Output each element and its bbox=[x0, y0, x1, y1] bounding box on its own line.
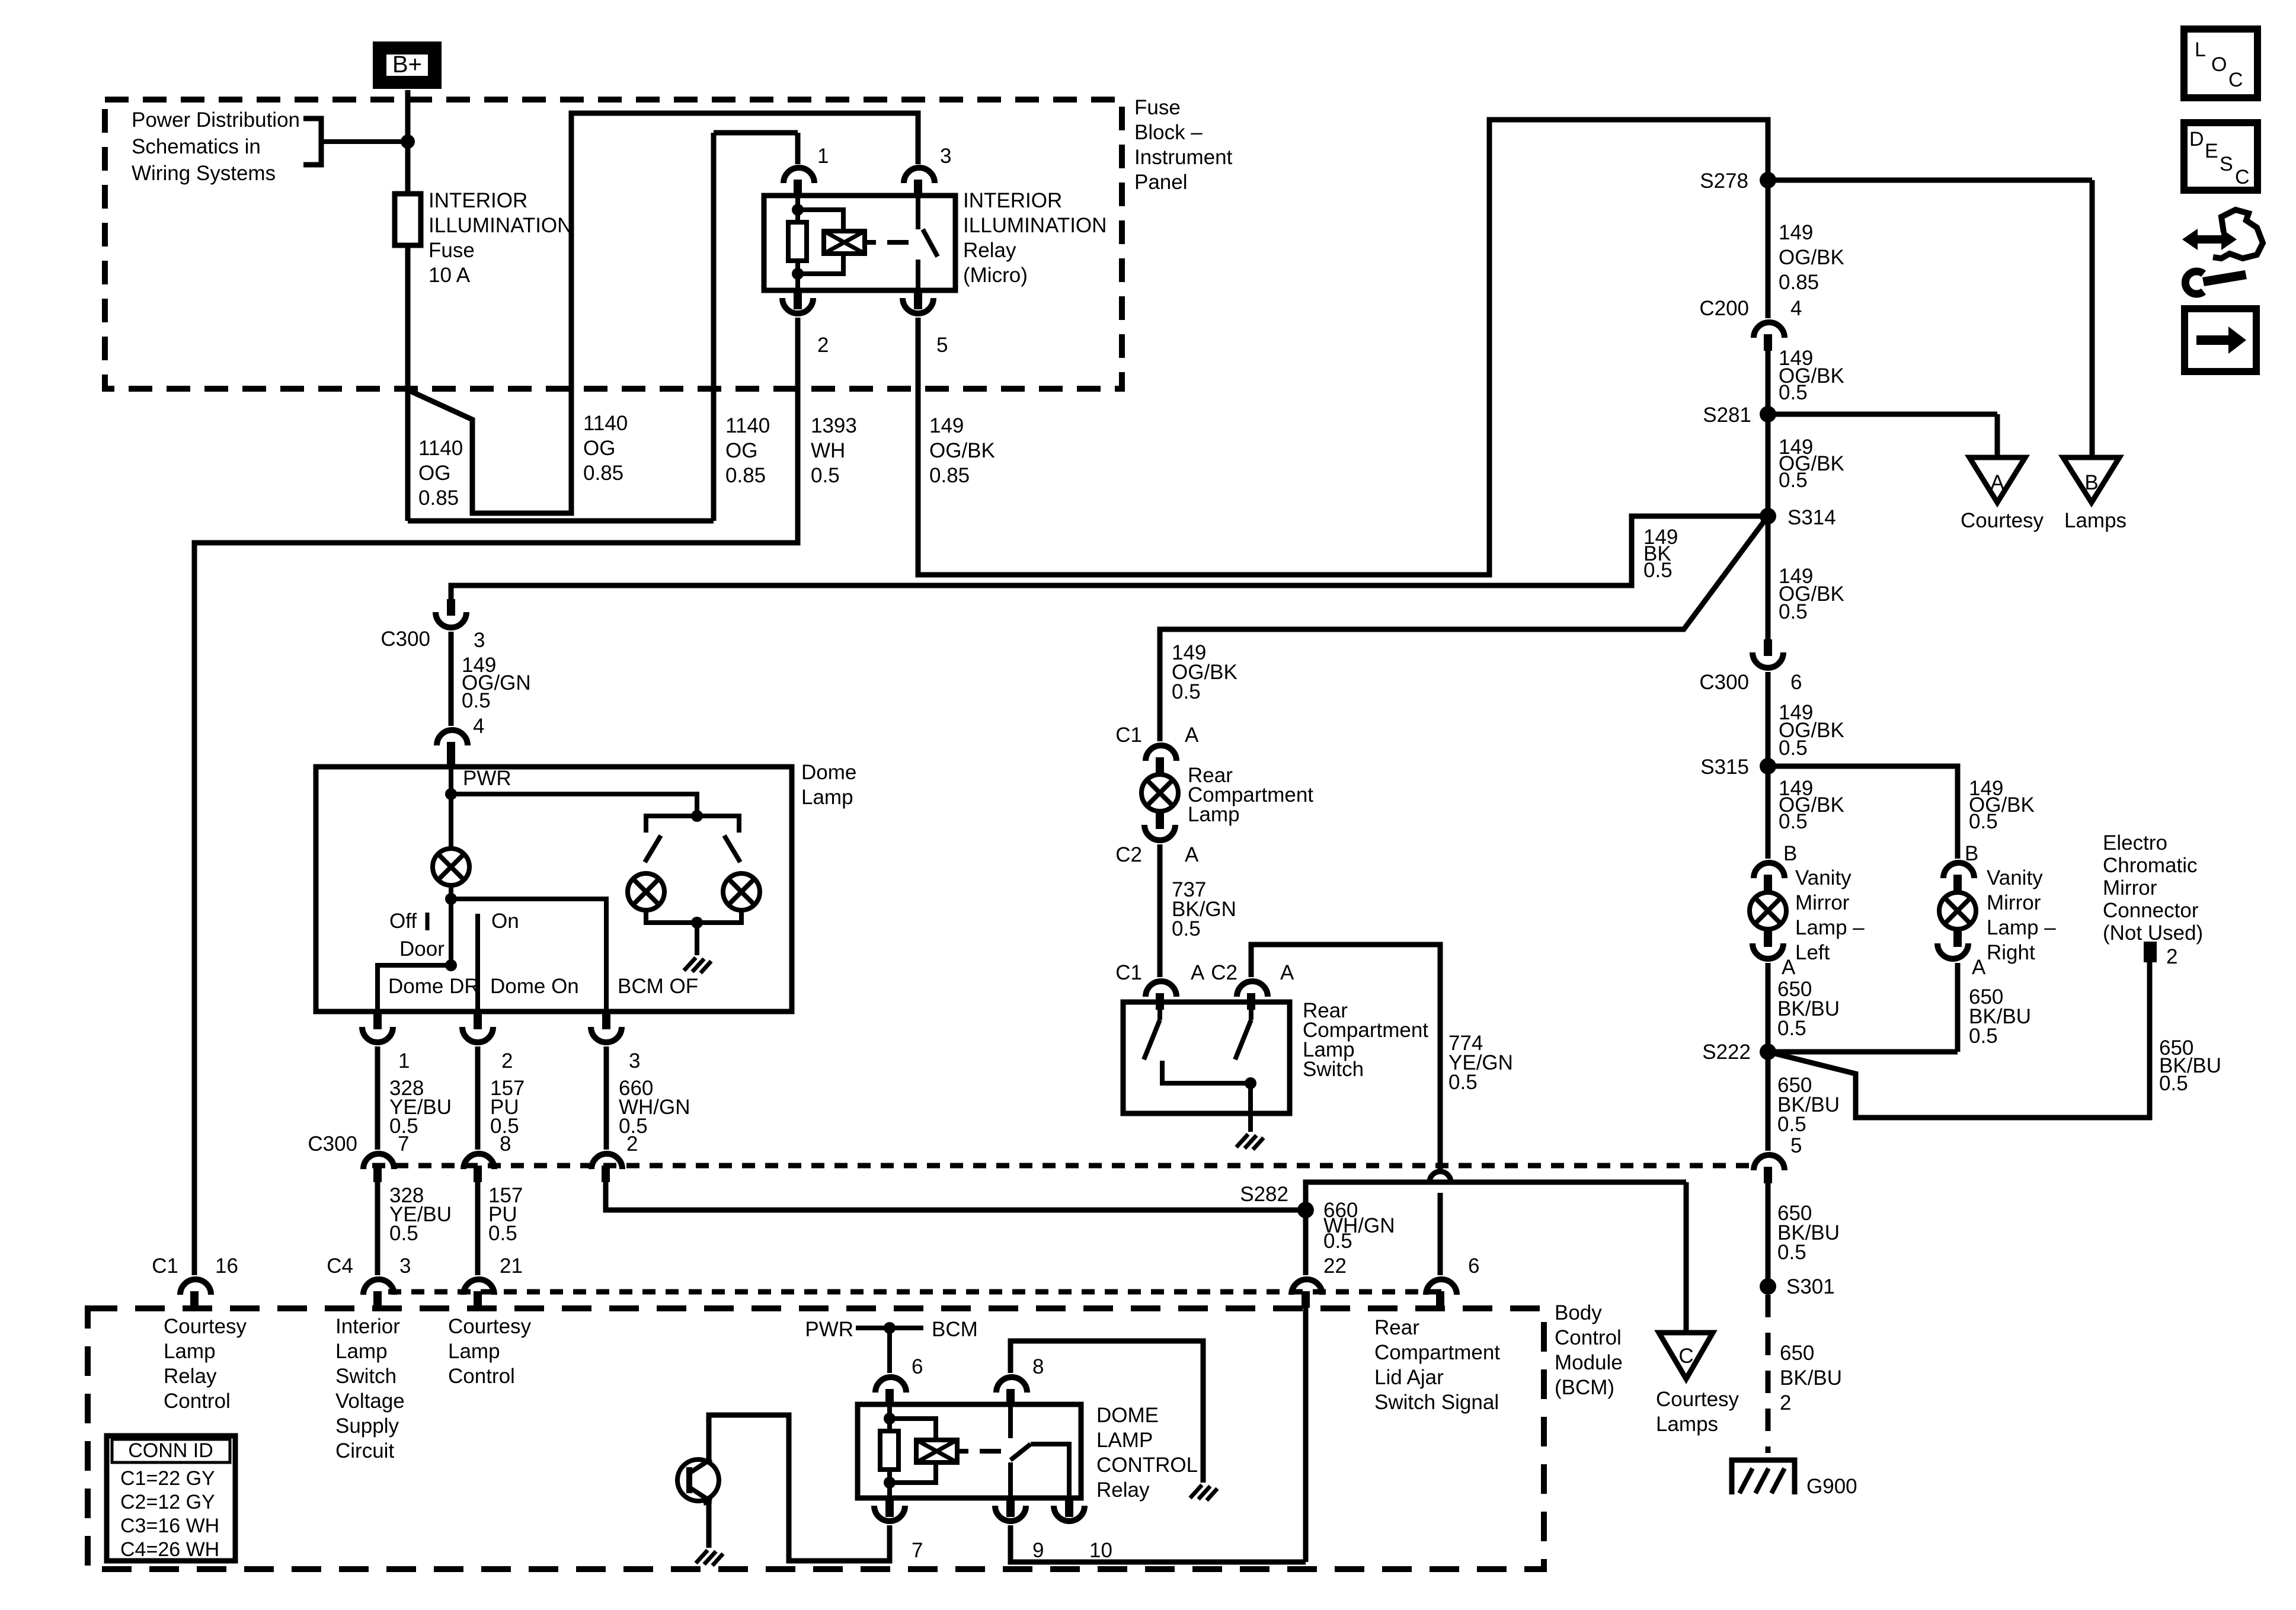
svg-text:7: 7 bbox=[912, 1539, 923, 1562]
svg-text:OG/BK: OG/BK bbox=[929, 439, 995, 462]
svg-text:0.5: 0.5 bbox=[488, 1222, 517, 1245]
svg-text:21: 21 bbox=[500, 1254, 523, 1278]
svg-text:0.5: 0.5 bbox=[1777, 1241, 1806, 1264]
svg-text:CONN ID: CONN ID bbox=[128, 1439, 213, 1462]
svg-text:Control: Control bbox=[448, 1365, 515, 1388]
svg-text:10 A: 10 A bbox=[428, 264, 471, 287]
svg-text:B: B bbox=[2084, 471, 2098, 494]
svg-text:Rear: Rear bbox=[1374, 1316, 1419, 1339]
svg-text:Voltage: Voltage bbox=[335, 1390, 405, 1413]
svg-text:0.5: 0.5 bbox=[1323, 1230, 1352, 1253]
svg-text:Panel: Panel bbox=[1134, 171, 1188, 194]
svg-text:Lamp: Lamp bbox=[1188, 803, 1240, 826]
svg-text:C4: C4 bbox=[327, 1254, 353, 1278]
svg-text:6: 6 bbox=[1790, 671, 1802, 694]
svg-text:0.5: 0.5 bbox=[1779, 737, 1808, 760]
svg-text:1140: 1140 bbox=[583, 412, 628, 435]
svg-text:ILLUMINATION: ILLUMINATION bbox=[428, 214, 572, 237]
svg-text:1: 1 bbox=[817, 145, 829, 168]
svg-text:2: 2 bbox=[817, 334, 829, 357]
svg-text:B: B bbox=[1783, 842, 1797, 865]
svg-text:Lamp: Lamp bbox=[164, 1340, 216, 1363]
svg-text:4: 4 bbox=[473, 715, 484, 738]
svg-text:1393: 1393 bbox=[811, 414, 857, 437]
svg-text:BCM: BCM bbox=[932, 1318, 978, 1341]
svg-text:OG: OG bbox=[418, 462, 450, 485]
svg-text:0.5: 0.5 bbox=[1172, 680, 1201, 703]
svg-text:D: D bbox=[2189, 128, 2204, 151]
svg-text:10: 10 bbox=[1089, 1539, 1112, 1562]
svg-text:Dome: Dome bbox=[801, 761, 856, 784]
svg-text:C1: C1 bbox=[152, 1254, 178, 1278]
svg-text:Switch Signal: Switch Signal bbox=[1374, 1391, 1499, 1414]
svg-text:Vanity: Vanity bbox=[1795, 866, 1851, 889]
svg-text:1140: 1140 bbox=[725, 414, 770, 437]
svg-text:8: 8 bbox=[500, 1132, 511, 1156]
svg-text:L: L bbox=[2195, 39, 2206, 61]
svg-text:S281: S281 bbox=[1703, 404, 1751, 427]
svg-text:Chromatic: Chromatic bbox=[2103, 854, 2197, 877]
svg-text:A: A bbox=[1782, 956, 1796, 979]
svg-text:C300: C300 bbox=[380, 628, 430, 651]
svg-text:C3=16 WH: C3=16 WH bbox=[120, 1515, 219, 1537]
svg-text:Left: Left bbox=[1795, 941, 1830, 964]
svg-text:0.5: 0.5 bbox=[1779, 810, 1808, 833]
svg-text:PWR: PWR bbox=[463, 767, 511, 790]
svg-text:4: 4 bbox=[1790, 297, 1802, 320]
svg-text:Dome On: Dome On bbox=[490, 975, 579, 998]
svg-text:OG: OG bbox=[583, 437, 615, 460]
svg-text:22: 22 bbox=[1323, 1254, 1347, 1278]
svg-text:Switch: Switch bbox=[1303, 1058, 1364, 1081]
svg-text:Lamps: Lamps bbox=[2064, 509, 2126, 532]
svg-text:0.5: 0.5 bbox=[1779, 469, 1808, 492]
svg-text:INTERIOR: INTERIOR bbox=[428, 189, 527, 212]
svg-text:1: 1 bbox=[398, 1049, 410, 1073]
svg-text:S: S bbox=[2220, 153, 2233, 175]
svg-text:(Micro): (Micro) bbox=[963, 264, 1028, 287]
svg-text:O: O bbox=[2211, 53, 2227, 76]
svg-text:0.5: 0.5 bbox=[1779, 381, 1808, 404]
svg-text:149: 149 bbox=[929, 414, 964, 437]
svg-text:Circuit: Circuit bbox=[335, 1439, 394, 1462]
svg-text:Electro: Electro bbox=[2103, 831, 2167, 854]
svg-text:Lamp –: Lamp – bbox=[1987, 916, 2056, 939]
svg-text:E: E bbox=[2205, 140, 2218, 162]
svg-text:0.5: 0.5 bbox=[1777, 1017, 1806, 1040]
svg-text:Dome DR: Dome DR bbox=[388, 975, 479, 998]
svg-text:1140: 1140 bbox=[418, 437, 463, 460]
svg-text:0.5: 0.5 bbox=[389, 1222, 418, 1245]
svg-text:0.5: 0.5 bbox=[1777, 1113, 1806, 1136]
svg-text:Mirror: Mirror bbox=[1795, 891, 1850, 914]
svg-text:650: 650 bbox=[1780, 1342, 1814, 1365]
svg-text:BCM OF: BCM OF bbox=[618, 975, 698, 998]
svg-text:Courtesy: Courtesy bbox=[1961, 509, 2044, 532]
svg-text:(BCM): (BCM) bbox=[1555, 1376, 1614, 1399]
svg-text:S282: S282 bbox=[1240, 1183, 1288, 1206]
svg-text:Power Distribution: Power Distribution bbox=[132, 108, 300, 132]
svg-text:0.85: 0.85 bbox=[725, 464, 766, 487]
svg-text:Supply: Supply bbox=[335, 1414, 399, 1438]
svg-text:INTERIOR: INTERIOR bbox=[963, 189, 1062, 212]
svg-text:DOME: DOME bbox=[1096, 1404, 1159, 1427]
svg-text:Lamp: Lamp bbox=[801, 786, 853, 809]
svg-text:Connector: Connector bbox=[2103, 899, 2199, 922]
svg-text:Relay: Relay bbox=[963, 239, 1016, 262]
svg-text:0.5: 0.5 bbox=[1779, 600, 1808, 623]
svg-text:Lamp: Lamp bbox=[448, 1340, 500, 1363]
svg-text:Lid Ajar: Lid Ajar bbox=[1374, 1366, 1444, 1389]
svg-text:0.5: 0.5 bbox=[1643, 559, 1673, 582]
svg-text:C2: C2 bbox=[1115, 843, 1142, 866]
svg-text:Lamp: Lamp bbox=[335, 1340, 388, 1363]
svg-text:ILLUMINATION: ILLUMINATION bbox=[963, 214, 1107, 237]
svg-text:On: On bbox=[491, 910, 519, 933]
svg-text:Lamps: Lamps bbox=[1656, 1413, 1718, 1436]
svg-text:Mirror: Mirror bbox=[1987, 891, 2041, 914]
svg-text:8: 8 bbox=[1032, 1355, 1044, 1378]
svg-text:9: 9 bbox=[1032, 1539, 1044, 1562]
svg-text:C300: C300 bbox=[308, 1132, 357, 1156]
svg-text:S278: S278 bbox=[1700, 169, 1748, 193]
svg-text:0.5: 0.5 bbox=[462, 689, 491, 712]
svg-text:6: 6 bbox=[1468, 1254, 1479, 1278]
svg-text:Courtesy: Courtesy bbox=[164, 1315, 247, 1338]
svg-text:Fuse: Fuse bbox=[428, 239, 475, 262]
svg-text:A: A bbox=[1191, 961, 1205, 984]
svg-text:C1: C1 bbox=[1115, 724, 1142, 747]
svg-text:Body: Body bbox=[1555, 1301, 1602, 1324]
svg-text:A: A bbox=[1990, 471, 2004, 494]
svg-text:A: A bbox=[1185, 724, 1199, 747]
svg-text:3: 3 bbox=[399, 1254, 411, 1278]
svg-text:S315: S315 bbox=[1700, 756, 1749, 779]
svg-text:A: A bbox=[1280, 961, 1294, 984]
svg-text:C4=26 WH: C4=26 WH bbox=[120, 1538, 219, 1561]
svg-text:5: 5 bbox=[936, 334, 948, 357]
svg-text:PWR: PWR bbox=[805, 1318, 853, 1341]
svg-text:C2=12 GY: C2=12 GY bbox=[120, 1491, 215, 1513]
svg-text:Instrument: Instrument bbox=[1134, 146, 1233, 169]
svg-text:3: 3 bbox=[474, 629, 485, 652]
svg-text:A: A bbox=[1185, 843, 1199, 866]
svg-text:5: 5 bbox=[1790, 1134, 1802, 1157]
svg-text:3: 3 bbox=[629, 1049, 640, 1073]
svg-text:S314: S314 bbox=[1787, 506, 1836, 529]
svg-text:Module: Module bbox=[1555, 1351, 1623, 1374]
svg-text:Door: Door bbox=[399, 937, 445, 961]
svg-text:CONTROL: CONTROL bbox=[1096, 1454, 1198, 1477]
svg-text:Right: Right bbox=[1987, 941, 2035, 964]
svg-text:2: 2 bbox=[1780, 1391, 1791, 1414]
svg-text:Schematics in: Schematics in bbox=[132, 135, 261, 158]
svg-text:B: B bbox=[1965, 842, 1978, 865]
svg-text:LAMP: LAMP bbox=[1096, 1429, 1153, 1452]
svg-text:149: 149 bbox=[1779, 221, 1813, 244]
svg-text:0.85: 0.85 bbox=[929, 464, 970, 487]
svg-text:Mirror: Mirror bbox=[2103, 876, 2157, 900]
svg-text:OG/BK: OG/BK bbox=[1779, 246, 1844, 269]
svg-text:0.85: 0.85 bbox=[1779, 271, 1819, 294]
svg-text:OG: OG bbox=[725, 439, 757, 462]
svg-text:Fuse: Fuse bbox=[1134, 96, 1181, 119]
svg-text:0.5: 0.5 bbox=[1969, 810, 1998, 833]
svg-text:Interior: Interior bbox=[335, 1315, 400, 1338]
svg-text:16: 16 bbox=[215, 1254, 238, 1278]
svg-text:Block –: Block – bbox=[1134, 121, 1203, 144]
svg-text:(Not Used): (Not Used) bbox=[2103, 921, 2203, 945]
svg-text:0.5: 0.5 bbox=[1448, 1071, 1478, 1094]
svg-text:Off: Off bbox=[389, 910, 417, 933]
svg-text:Compartment: Compartment bbox=[1374, 1341, 1500, 1364]
svg-text:Control: Control bbox=[164, 1390, 231, 1413]
svg-text:C300: C300 bbox=[1699, 671, 1749, 694]
svg-text:0.5: 0.5 bbox=[1969, 1025, 1998, 1048]
svg-text:Wiring Systems: Wiring Systems bbox=[132, 162, 276, 185]
svg-text:2: 2 bbox=[626, 1132, 638, 1156]
svg-text:0.5: 0.5 bbox=[811, 464, 840, 487]
svg-text:Relay: Relay bbox=[1096, 1478, 1150, 1502]
svg-text:C: C bbox=[2228, 69, 2243, 91]
svg-text:Relay: Relay bbox=[164, 1365, 217, 1388]
svg-text:6: 6 bbox=[912, 1355, 923, 1378]
svg-text:Courtesy: Courtesy bbox=[1656, 1388, 1739, 1411]
svg-text:Vanity: Vanity bbox=[1987, 866, 2043, 889]
svg-text:C2: C2 bbox=[1211, 961, 1237, 984]
svg-text:3: 3 bbox=[940, 145, 951, 168]
svg-text:B+: B+ bbox=[392, 52, 422, 78]
svg-text:G900: G900 bbox=[1806, 1475, 1857, 1498]
svg-text:Courtesy: Courtesy bbox=[448, 1315, 532, 1338]
svg-text:A: A bbox=[1972, 956, 1986, 979]
svg-text:C: C bbox=[1678, 1345, 1693, 1368]
svg-text:2: 2 bbox=[501, 1049, 513, 1073]
svg-text:7: 7 bbox=[398, 1132, 409, 1156]
svg-text:0.85: 0.85 bbox=[583, 462, 623, 485]
svg-text:0.5: 0.5 bbox=[1172, 917, 1201, 940]
svg-text:Lamp –: Lamp – bbox=[1795, 916, 1865, 939]
svg-text:Control: Control bbox=[1555, 1326, 1622, 1349]
svg-text:WH: WH bbox=[811, 439, 845, 462]
svg-text:0.5: 0.5 bbox=[2159, 1072, 2188, 1095]
svg-text:C1=22 GY: C1=22 GY bbox=[120, 1467, 215, 1490]
svg-text:BK/BU: BK/BU bbox=[1780, 1366, 1842, 1390]
svg-text:S222: S222 bbox=[1702, 1041, 1751, 1064]
svg-text:S301: S301 bbox=[1786, 1275, 1835, 1298]
svg-text:Switch: Switch bbox=[335, 1365, 396, 1388]
svg-text:0.85: 0.85 bbox=[418, 486, 459, 510]
svg-text:C: C bbox=[2235, 166, 2250, 188]
svg-text:C1: C1 bbox=[1115, 961, 1142, 984]
svg-text:C200: C200 bbox=[1699, 297, 1749, 320]
svg-text:2: 2 bbox=[2166, 945, 2177, 968]
